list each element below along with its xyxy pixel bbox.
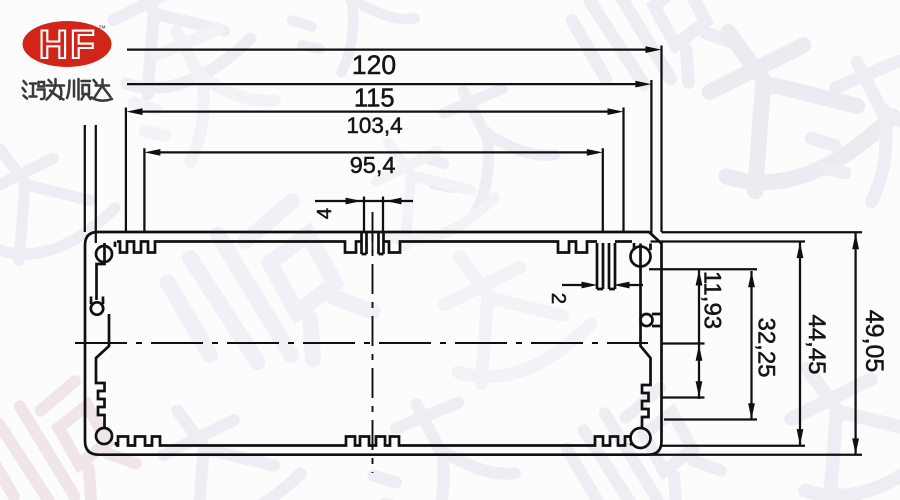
svg-text:11,93: 11,93 bbox=[699, 271, 726, 329]
svg-text:103,4: 103,4 bbox=[346, 113, 402, 138]
svg-text:2: 2 bbox=[547, 293, 570, 304]
svg-text:95,4: 95,4 bbox=[350, 152, 396, 178]
svg-text:™: ™ bbox=[98, 24, 106, 33]
svg-text:4: 4 bbox=[313, 208, 336, 219]
svg-text:120: 120 bbox=[352, 50, 396, 80]
svg-text:44,45: 44,45 bbox=[803, 314, 830, 374]
svg-text:115: 115 bbox=[354, 84, 395, 112]
svg-text:HF: HF bbox=[39, 23, 97, 67]
svg-text:32,25: 32,25 bbox=[753, 317, 780, 377]
svg-text:49,05: 49,05 bbox=[860, 310, 888, 373]
